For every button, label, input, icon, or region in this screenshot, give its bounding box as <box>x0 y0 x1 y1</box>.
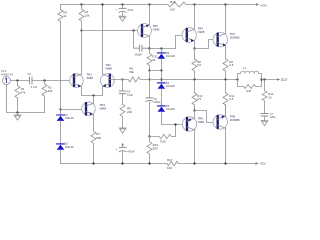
capacitor C1 4.7uF input coupling <box>28 72 38 89</box>
node TR4 collector at rail <box>148 3 150 5</box>
node output network right <box>260 78 262 80</box>
svg-text:100uF: 100uF <box>154 101 162 104</box>
ground feedback network <box>119 128 126 133</box>
wire drive to upper driver base <box>150 36 187 49</box>
svg-text:C945: C945 <box>153 28 160 32</box>
source V1 audio input <box>1 69 13 84</box>
svg-text:100: 100 <box>167 166 172 170</box>
svg-text:1N4148: 1N4148 <box>65 146 74 149</box>
wire TR2 base to junction <box>110 79 123 81</box>
node upper driver emitter <box>193 47 195 49</box>
transistor TR7 2N3055 upper output <box>213 5 240 59</box>
svg-text:10: 10 <box>268 95 272 99</box>
svg-text:10k: 10k <box>84 14 89 18</box>
node R13 at bottom rail <box>148 162 150 164</box>
svg-text:R16: R16 <box>170 0 176 4</box>
resistor R4 10k collector load <box>79 5 90 31</box>
wire input node <box>11 80 30 82</box>
wire C1 to TR1 base <box>32 80 74 82</box>
node bias mid junction left <box>148 69 150 71</box>
node TR2 collector at rail <box>101 3 103 5</box>
svg-text:C1: C1 <box>28 72 32 76</box>
svg-text:1N4148: 1N4148 <box>166 55 175 58</box>
resistor R8 0.5 upper driver emitter <box>192 49 202 80</box>
node zobel tap <box>263 78 265 80</box>
svg-text:0.1V: 0.1V <box>1 69 7 73</box>
svg-text:47k: 47k <box>21 91 26 95</box>
wire to OUT <box>262 79 278 81</box>
node input junction <box>16 79 18 81</box>
svg-text:-42V: -42V <box>259 162 265 166</box>
svg-text:47uF: 47uF <box>127 93 133 97</box>
net arrow OUT <box>277 78 288 82</box>
svg-text:A966: A966 <box>198 120 205 124</box>
wire diode column mid <box>161 71 163 83</box>
resistor R16 100 inline in top rail <box>168 0 186 12</box>
resistor R7 560 emitter of TR3 <box>91 114 102 163</box>
wire bias column to output node <box>149 71 151 80</box>
svg-text:0.5: 0.5 <box>229 63 233 67</box>
svg-text:0.5: 0.5 <box>197 97 201 101</box>
resistor R9 0.5 upper output emitter <box>223 59 234 80</box>
transistor TR3 C945 tail current source <box>82 96 107 116</box>
power net arrow -42V <box>256 162 266 166</box>
svg-text:47uF: 47uF <box>127 8 133 12</box>
capacitor C2 47uF rail decoupling <box>115 5 134 17</box>
diode D2 1N4148 <box>57 143 74 164</box>
transistor TR6 A966 lower driver <box>182 111 204 164</box>
wire bottom supply rail left segment <box>61 163 168 165</box>
node output network left <box>236 78 238 80</box>
node VAS collector drive upper <box>148 47 150 49</box>
node bias mid junction right <box>160 69 162 71</box>
node R7 at bottom rail <box>92 162 94 164</box>
power net arrow +42V <box>256 3 267 7</box>
transistor TR2 C945 input pair right <box>100 5 114 96</box>
wire bottom supply rail right segment <box>178 163 255 165</box>
node R9 at output line <box>224 78 226 80</box>
svg-text:100n: 100n <box>270 115 276 119</box>
transistor TR1 C945 input pair left <box>70 72 94 95</box>
svg-text:22k: 22k <box>48 89 53 93</box>
svg-text:0.5: 0.5 <box>197 63 201 67</box>
svg-text:AUDIO IN: AUDIO IN <box>1 73 13 77</box>
node lower driver emitter junction <box>193 109 195 111</box>
node ground bus junction <box>16 111 18 113</box>
node upper power collector at rail <box>224 3 226 5</box>
wire TR1 collector column <box>81 31 83 75</box>
diode D1 1N4148 <box>57 110 74 144</box>
svg-text:100: 100 <box>170 8 175 12</box>
ground input <box>14 113 21 121</box>
wire bias junction to TR3 base <box>61 109 87 111</box>
resistor R1 47k <box>15 81 26 113</box>
svg-text:+: + <box>115 7 117 11</box>
svg-text:+: + <box>115 147 117 151</box>
node R8 at output line <box>193 78 195 80</box>
svg-text:2k: 2k <box>152 58 156 62</box>
node upper driver collector at rail <box>193 3 195 5</box>
svg-text:560: 560 <box>96 136 101 140</box>
diode D5 1N4148 bias <box>157 105 175 125</box>
svg-text:R17: R17 <box>167 158 173 162</box>
capacitor C4 100pF miller <box>134 31 149 57</box>
wire top supply rail right segment <box>186 4 256 6</box>
wire bias mid link <box>150 70 162 72</box>
transistor TR4 C945 VAS <box>138 5 160 49</box>
svg-text:2N3055: 2N3055 <box>230 118 240 122</box>
inductor L1 output <box>238 66 262 79</box>
svg-text:4.7uF: 4.7uF <box>31 85 38 89</box>
resistor R13 560 to bottom rail <box>147 137 158 164</box>
wire main output line <box>150 79 238 81</box>
resistor R10 0.5 lower driver emitter <box>192 80 203 111</box>
node diode column at output line <box>160 78 162 80</box>
node R2 top <box>43 79 45 81</box>
node TR6 collector at bottom rail <box>193 162 195 164</box>
resistor R11 0.5 lower output emitter <box>223 80 235 117</box>
resistor R3 1k bias chain from rail <box>58 5 67 110</box>
node TR2 base junction <box>121 78 123 80</box>
node TR1 collector / VAS base <box>80 29 82 31</box>
capacitor C8 470uF rail bypass <box>115 143 135 164</box>
svg-text:1N4148: 1N4148 <box>166 108 175 111</box>
svg-text:+42V: +42V <box>260 3 267 7</box>
resistor R6 56k feedback <box>123 67 150 82</box>
svg-text:0.5: 0.5 <box>229 97 233 101</box>
wire lower driver emitter to power base <box>195 111 218 123</box>
node C8 at bottom rail <box>121 162 123 164</box>
capacitor C6 100uF bootstrap inline <box>146 80 161 137</box>
resistor R14 10 zobel <box>262 80 274 114</box>
svg-text:OUT: OUT <box>281 78 288 82</box>
resistor R18 10 parallel with L1 <box>238 80 262 93</box>
resistor R2 22k <box>42 81 53 113</box>
svg-text:L1: L1 <box>243 66 246 70</box>
resistor R15 100 to lower driver base <box>150 125 176 144</box>
capacitor C3 47uF feedback <box>119 80 133 105</box>
node tail junction <box>92 94 94 96</box>
svg-text:56k: 56k <box>129 70 134 74</box>
wire lower driver base line <box>162 124 188 126</box>
svg-text:560: 560 <box>153 147 158 151</box>
diode D3 1N4148 bias <box>157 49 175 71</box>
node lower base corner junction <box>174 123 176 125</box>
svg-text:1k: 1k <box>63 14 67 18</box>
svg-text:A966: A966 <box>106 66 113 70</box>
node bias diode top <box>160 47 162 49</box>
svg-text:1N4148: 1N4148 <box>166 85 175 88</box>
svg-text:R15: R15 <box>160 140 166 144</box>
capacitor C7 100n zobel <box>261 112 276 121</box>
node lower bias junction <box>148 135 150 137</box>
node rail R4 top <box>80 3 82 5</box>
wire source return to ground bus <box>7 84 45 112</box>
svg-text:1N4148: 1N4148 <box>65 117 74 120</box>
svg-text:R18: R18 <box>247 90 252 93</box>
ground zobel <box>261 121 268 126</box>
resistor R17 100 inline in bottom rail <box>167 158 178 170</box>
svg-text:100pF: 100pF <box>135 52 143 56</box>
transistor TR5 C945 upper driver <box>182 5 205 49</box>
node C2 at rail <box>121 3 123 5</box>
wire VAS base line <box>82 30 143 32</box>
wire tail join <box>82 95 103 97</box>
node bias chain junction <box>59 108 61 110</box>
wire top supply rail left segment <box>61 4 168 6</box>
wire driver emitter to power base <box>195 40 218 49</box>
svg-text:C945: C945 <box>198 30 205 34</box>
node feedback tap <box>148 78 150 80</box>
resistor R12 2k inline bias <box>147 49 158 71</box>
svg-text:470uF: 470uF <box>127 150 135 154</box>
node TR8 collector at bottom rail <box>224 162 226 164</box>
diode D4 1N4148 bias <box>157 82 175 106</box>
svg-text:2N3055: 2N3055 <box>230 36 240 40</box>
svg-text:A966: A966 <box>100 106 107 110</box>
transistor TR8 2N3055 lower output <box>213 105 240 164</box>
ground C2 <box>119 16 126 21</box>
node miller cap tap <box>132 29 134 31</box>
resistor R5 220 feedback shunt <box>120 104 132 128</box>
svg-text:A966: A966 <box>87 76 94 80</box>
svg-text:220: 220 <box>127 110 132 114</box>
